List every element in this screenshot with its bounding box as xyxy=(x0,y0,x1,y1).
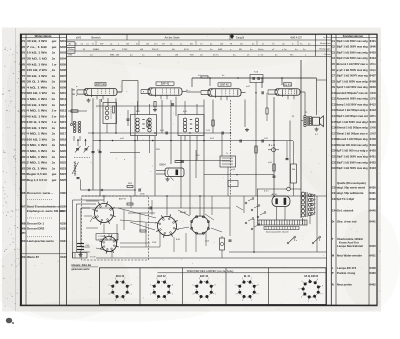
svg-text:4 + 3: 4 + 3 xyxy=(269,143,276,147)
variable capacitor tuning gang 2 xyxy=(84,146,90,153)
tube V4 EL41 (output) xyxy=(268,83,305,100)
svg-text:1: 1 xyxy=(215,294,216,296)
wire V4 tip to output transformer xyxy=(304,92,307,116)
svg-text:6: 6 xyxy=(199,278,200,280)
resistor block W bleeder xyxy=(291,141,297,196)
small box below resistor network xyxy=(228,181,238,187)
left table rows: resistors W1-W25 xyxy=(21,39,66,182)
wire long horizontals mid xyxy=(81,106,294,191)
svg-text:5: 5 xyxy=(298,289,299,291)
svg-text:N: N xyxy=(332,282,334,286)
small parts around sockets xyxy=(103,195,275,253)
trimmer capacitor arrows xyxy=(77,139,87,146)
tube socket S2 xyxy=(155,214,178,237)
svg-text:Ja: Ja xyxy=(52,161,56,165)
resistor on top bus xyxy=(201,76,208,78)
svg-text:EL 41: EL 41 xyxy=(284,83,291,86)
svg-text:7: 7 xyxy=(166,278,167,280)
svg-text:W: W xyxy=(292,116,294,118)
capacitor near output stage xyxy=(286,141,289,160)
coupling loop wire T1 to T2 xyxy=(117,81,138,112)
capacitor C12 on y141 xyxy=(262,140,263,143)
svg-text:C 1306: C 1306 xyxy=(98,236,105,238)
top header strip grid xyxy=(67,34,332,56)
switch contact arcs right of S3 xyxy=(245,198,266,230)
svg-text:Drossel Dr 1: Drossel Dr 1 xyxy=(27,221,44,225)
wire mid verticals xyxy=(135,60,317,218)
svg-text:2 BK: 2 BK xyxy=(152,242,157,244)
svg-text:EAF 42: EAF 42 xyxy=(161,83,170,86)
page crease line left margin xyxy=(14,28,16,311)
svg-text:5: 5 xyxy=(150,285,151,287)
svg-text:6325: 6325 xyxy=(60,178,66,182)
svg-text:Ja: Ja xyxy=(52,166,56,170)
pinout socket P2 EAF 42 xyxy=(150,275,173,302)
svg-text:6326: 6326 xyxy=(60,205,67,209)
right table rows: capacitors C1-C23 xyxy=(332,39,377,170)
terminal strip under S1 xyxy=(96,234,118,241)
svg-text:6431: 6431 xyxy=(370,191,377,195)
svg-text:8: 8 xyxy=(258,285,259,287)
schematic right boundary line xyxy=(326,34,328,305)
svg-text:8: 8 xyxy=(131,285,132,287)
pinout socket P3 EAF 42 xyxy=(192,275,215,302)
IF transformer T2 xyxy=(178,112,204,139)
oscillator coil box L2 xyxy=(103,103,117,134)
svg-text:gez: gez xyxy=(52,172,57,176)
svg-text:6331: 6331 xyxy=(60,226,67,230)
svg-text:gez: gez xyxy=(52,39,57,43)
svg-text:gez: gez xyxy=(52,45,57,49)
IF transformer T1 xyxy=(131,112,157,139)
svg-text:4: 4 xyxy=(301,296,302,298)
svg-text:6327: 6327 xyxy=(60,209,67,213)
capacitor C7 on V2 cathode xyxy=(127,110,130,126)
svg-text:9: 9 xyxy=(322,286,323,288)
svg-text:2: 2 xyxy=(251,300,252,302)
svg-text:6318: 6318 xyxy=(60,137,66,141)
svg-text:6432: 6432 xyxy=(370,197,377,201)
svg-text:6430: 6430 xyxy=(370,185,377,189)
svg-text:6323: 6323 xyxy=(60,166,66,170)
svg-text:6316: 6316 xyxy=(60,126,66,130)
svg-text:1: 1 xyxy=(172,294,173,296)
svg-text:6321: 6321 xyxy=(60,155,66,159)
parts above chassis box xyxy=(127,183,145,196)
power transformer TR xyxy=(301,192,311,224)
capacitor group on top bus C14 xyxy=(250,72,263,83)
svg-text:3: 3 xyxy=(199,300,200,302)
svg-text:6320: 6320 xyxy=(60,149,66,153)
antenna terminal marks xyxy=(73,90,75,94)
svg-text:Gef. oberteil: Gef. oberteil xyxy=(337,209,354,213)
note label left of bottom box xyxy=(71,265,99,271)
svg-text:1: 1 xyxy=(322,294,323,296)
left nested wire loops to chassis xyxy=(73,200,105,258)
wire top screen bus xyxy=(187,77,327,99)
svg-text:Lp.Wels: Lp.Wels xyxy=(323,37,330,39)
svg-text:Ja: Ja xyxy=(52,51,56,55)
svg-text:6301: 6301 xyxy=(60,39,66,43)
svg-text:EM34: EM34 xyxy=(160,164,167,166)
svg-text:2: 2 xyxy=(316,300,317,302)
right table frame (Kondensatoren list) xyxy=(331,34,376,305)
frame shadow thick bottom and left xyxy=(20,34,377,305)
resistor R mid vertical 3 xyxy=(273,164,275,171)
svg-text:6314: 6314 xyxy=(60,114,66,118)
svg-text:Röhre: Röhre xyxy=(69,48,76,51)
resistor R mid vertical 2 xyxy=(255,146,257,153)
capacitor C10 mid xyxy=(222,132,223,135)
scan speckles xyxy=(2,29,381,310)
svg-text:6319: 6319 xyxy=(60,143,66,147)
shield partition dashed vertical xyxy=(230,100,232,196)
drawing frame border xyxy=(21,34,378,305)
resistor network block right of EM34 xyxy=(220,156,236,167)
svg-text:P: P xyxy=(332,271,334,275)
schematic small value labels xyxy=(76,75,319,171)
capacitor under V2 anode xyxy=(172,97,176,116)
small parts between T3 and T4 xyxy=(255,91,268,121)
svg-text:7: 7 xyxy=(208,278,209,280)
svg-text:ANT ST: ANT ST xyxy=(119,198,127,201)
cathode resistor under V2 xyxy=(153,102,157,112)
tube V3 EAF42 (demod) xyxy=(201,83,246,100)
magic eye tube EM34 xyxy=(156,160,184,181)
transformer third winding xyxy=(311,194,316,215)
svg-text:1: 1 xyxy=(258,294,259,296)
svg-text:6301: 6301 xyxy=(60,191,67,195)
svg-text:1: 1 xyxy=(131,294,132,296)
svg-text:8: 8 xyxy=(317,279,318,281)
antenna input transformer L1 xyxy=(71,88,81,141)
ground under C13 xyxy=(245,128,249,132)
svg-text:6: 6 xyxy=(302,281,303,283)
wires socket area horizontals xyxy=(82,196,327,258)
svg-text:Kondensatoren: Kondensatoren xyxy=(343,34,364,38)
capacitor C9 mid xyxy=(166,132,167,135)
svg-text:3: 3 xyxy=(308,301,309,303)
svg-text:6403: 6403 xyxy=(370,50,377,54)
svg-text:6317: 6317 xyxy=(60,132,66,136)
svg-text:2: 2 xyxy=(208,300,209,302)
leader dashes from left table rows xyxy=(67,42,75,53)
output transformer T3 xyxy=(301,115,312,126)
pinout socket P1 ECH 42 xyxy=(108,275,131,302)
tube V1 ECH42 (mixer) xyxy=(77,83,122,100)
scanned page background xyxy=(2,28,381,312)
svg-text:Ja: Ja xyxy=(52,57,56,61)
tube V2 EAF42 (IF amp) xyxy=(141,82,187,99)
svg-text:7: 7 xyxy=(309,277,310,279)
mains voltage selector strip xyxy=(258,220,308,233)
svg-text:4: 4 xyxy=(150,294,151,296)
pilot lamp 4+3 xyxy=(268,143,279,152)
svg-text:6401: 6401 xyxy=(370,39,377,43)
ground at V1 cathode xyxy=(87,99,91,103)
fuse Si xyxy=(220,236,225,258)
left table frame (Widerstaende list) xyxy=(21,34,67,305)
svg-text:a50*: a50* xyxy=(289,89,293,91)
wire V1 drops xyxy=(92,98,117,196)
svg-text:6322: 6322 xyxy=(60,161,66,165)
variable capacitor tuning gang 1 xyxy=(75,146,81,153)
svg-text:gez: gez xyxy=(21,231,26,234)
pinout socket P5 AZ 41 EM 34 xyxy=(298,275,322,303)
svg-text:6303: 6303 xyxy=(60,51,66,55)
tube socket S1 (under chassis) xyxy=(92,201,115,224)
svg-text:5: 5 xyxy=(235,285,236,287)
svg-text:Empfangs-m. werte 100 mΩ: Empfangs-m. werte 100 mΩ xyxy=(27,209,65,213)
ground under speaker xyxy=(315,128,319,132)
svg-text:Bereich: Bereich xyxy=(91,36,101,40)
loudspeaker LS xyxy=(305,112,324,126)
svg-text:6: 6 xyxy=(156,278,157,280)
svg-text:AZ 41 EM 34: AZ 41 EM 34 xyxy=(304,275,319,278)
svg-text:6330: 6330 xyxy=(60,221,67,225)
tube socket S4 small xyxy=(99,234,118,253)
svg-text:W9: W9 xyxy=(21,226,26,230)
resistor W2 near table xyxy=(68,110,87,112)
ink blot bottom left margin xyxy=(6,318,14,324)
svg-text:4: 4 xyxy=(235,294,236,296)
svg-text:a042: a042 xyxy=(76,37,82,39)
svg-text:6: 6 xyxy=(242,278,243,280)
electrolytic capacitor stack xyxy=(77,244,89,257)
svg-text:6324: 6324 xyxy=(60,172,66,176)
capacitor C13 vertical xyxy=(273,176,276,177)
svg-text:SPEICHER DES LAMPEN (von der: SPEICHER DES LAMPEN (von der Seite) xyxy=(187,270,234,273)
capacitor C11 on y141 xyxy=(240,140,241,143)
svg-text:5: 5 xyxy=(192,285,193,287)
wire AVC line y175 xyxy=(204,174,274,175)
left table special entries (Drossel, Lautsprecher etc.) xyxy=(21,191,68,259)
right table special entries xyxy=(332,181,376,286)
svg-text:3: 3 xyxy=(242,300,243,302)
bottom pinout box frame xyxy=(100,268,327,305)
svg-text:8: 8 xyxy=(172,285,173,287)
svg-text:Wd: Wd xyxy=(292,169,295,171)
svg-text:Drossel DR2: Drossel DR2 xyxy=(27,226,45,230)
chassis dashed enclosure xyxy=(82,196,149,260)
svg-text:4u: 4u xyxy=(222,75,224,77)
svg-text:EAF 42: EAF 42 xyxy=(220,84,229,87)
pilot lamp on mains wire xyxy=(257,187,301,220)
svg-text:gez: gez xyxy=(52,178,57,182)
top header texts xyxy=(69,33,331,56)
svg-text:Dr: Dr xyxy=(332,222,335,224)
svg-text:EL 41: EL 41 xyxy=(244,275,251,278)
svg-text:g: g xyxy=(143,91,144,93)
svg-text:6315: 6315 xyxy=(60,120,66,124)
resistor R mid vertical 1 xyxy=(147,120,149,127)
svg-text:4: 4 xyxy=(192,294,193,296)
svg-text:W8: W8 xyxy=(21,221,26,225)
rectifier tube AZ41 xyxy=(264,191,290,221)
volume potentiometer xyxy=(72,161,81,190)
tuning gang mechanical dashed link xyxy=(74,157,90,159)
svg-text:C 1307: C 1307 xyxy=(98,239,105,241)
svg-text:10490: 10490 xyxy=(370,45,376,49)
svg-text:8: 8 xyxy=(215,285,216,287)
mains switch contacts xyxy=(287,236,321,244)
mains filter box bottom left xyxy=(73,253,96,259)
svg-text:6302: 6302 xyxy=(60,45,66,49)
page inner lighter area xyxy=(21,34,378,305)
svg-text:6313: 6313 xyxy=(60,109,66,113)
svg-text:7: 7 xyxy=(251,278,252,280)
resistor R mid vertical 4 xyxy=(212,120,214,126)
pinout socket P4 EL 41 xyxy=(235,275,258,302)
tube socket S3 xyxy=(191,216,210,235)
